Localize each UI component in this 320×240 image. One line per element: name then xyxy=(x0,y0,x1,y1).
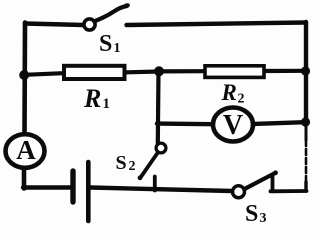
label S2 xyxy=(116,152,136,174)
svg-text:S: S xyxy=(99,31,112,57)
switch S1 xyxy=(84,2,131,30)
label S1 xyxy=(99,31,121,57)
resistor R1 xyxy=(64,66,125,79)
wire middle vertical xyxy=(156,71,161,143)
switch S2 xyxy=(138,143,166,190)
node C (right junction R2 row) xyxy=(301,66,310,75)
svg-text:S: S xyxy=(116,152,127,174)
battery xyxy=(73,162,88,221)
node D (right junction V row) xyxy=(301,117,310,126)
wire left border lower xyxy=(22,167,27,189)
wire bottom-middle segment xyxy=(91,188,233,192)
svg-text:2: 2 xyxy=(238,92,245,107)
svg-text:3: 3 xyxy=(260,211,267,224)
wire right border lower xyxy=(305,122,308,191)
svg-text:V: V xyxy=(223,110,243,141)
wire V row left xyxy=(157,121,214,126)
svg-text:S: S xyxy=(245,201,258,224)
svg-text:A: A xyxy=(16,135,36,165)
wire R1 row left xyxy=(25,73,63,75)
svg-text:R: R xyxy=(83,84,101,113)
wire top-left segment xyxy=(25,24,84,26)
wire right border upper xyxy=(304,22,308,122)
label R2 xyxy=(221,80,245,107)
wire R2 row right xyxy=(264,69,306,73)
label S3 xyxy=(245,201,267,227)
wire R2 row left xyxy=(159,69,205,73)
svg-text:R: R xyxy=(221,80,237,105)
label R1 xyxy=(83,84,110,113)
wire V row right xyxy=(253,122,306,124)
wire bottom-left segment xyxy=(23,185,70,189)
wire top-right segment xyxy=(127,23,307,26)
svg-text:1: 1 xyxy=(103,96,111,112)
node B (middle junction) xyxy=(154,66,164,76)
wire S3 fixed contact xyxy=(271,175,307,192)
svg-text:1: 1 xyxy=(114,41,121,56)
svg-text:2: 2 xyxy=(129,159,136,174)
resistor R2 xyxy=(205,66,264,78)
wire left border upper xyxy=(22,23,27,136)
wire R1 row middle xyxy=(125,69,160,74)
ammeter A xyxy=(6,134,45,168)
voltmeter V xyxy=(213,108,253,142)
switch S3 xyxy=(233,170,278,197)
node A (left junction) xyxy=(19,70,29,80)
